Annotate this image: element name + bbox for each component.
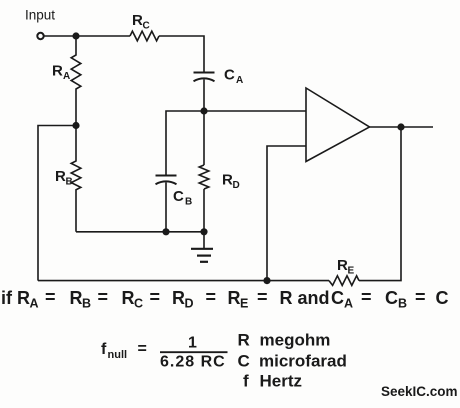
svg-text:Hertz: Hertz: [260, 372, 303, 391]
resistor RA: [71, 36, 81, 126]
wire RD to ground node: [203, 189, 205, 232]
wire op-amp inverting input: [267, 146, 306, 281]
svg-text:B: B: [398, 297, 407, 311]
wire RC to top-right corner: [159, 36, 204, 73]
resistor RB: [71, 126, 81, 232]
svg-text:R: R: [132, 12, 143, 29]
svg-text:6.28 RC: 6.28 RC: [160, 354, 226, 371]
svg-text:R: R: [52, 63, 63, 80]
wire RE to feedback node: [267, 280, 329, 282]
wire feedback node to left rail: [38, 280, 267, 282]
svg-text:1: 1: [188, 335, 197, 352]
svg-text:R: R: [238, 331, 250, 350]
svg-text:R: R: [122, 288, 135, 308]
node output junction: [397, 123, 404, 130]
svg-text:C: C: [238, 351, 250, 370]
resistor RE: [329, 276, 359, 286]
svg-text:and: and: [298, 288, 330, 308]
wire node B left to CB branch: [166, 111, 204, 176]
capacitor CB: [156, 176, 177, 185]
svg-text:C: C: [143, 21, 150, 32]
svg-text:C: C: [224, 67, 235, 84]
wire CB to bottom node: [165, 183, 167, 232]
capacitor CA: [194, 73, 215, 82]
svg-text:f: f: [101, 341, 107, 358]
node C junction: [72, 122, 79, 129]
svg-text:C: C: [385, 288, 398, 308]
wire op-amp output: [370, 126, 434, 128]
wire node B down to RD: [203, 111, 205, 165]
svg-text:R: R: [337, 257, 348, 274]
wire CA to node B: [203, 80, 205, 112]
svg-text:megohm: megohm: [260, 331, 331, 350]
svg-text:=: =: [206, 287, 217, 307]
svg-text:R: R: [222, 172, 233, 189]
svg-text:=: =: [150, 287, 161, 307]
svg-text:R: R: [172, 288, 185, 308]
input terminal: [37, 33, 43, 39]
svg-text:R: R: [17, 288, 30, 308]
svg-text:C: C: [134, 297, 143, 311]
node B junction: [200, 107, 207, 114]
wire RB bottom to ground node: [76, 231, 204, 233]
svg-text:R: R: [280, 288, 293, 308]
svg-text:C: C: [436, 288, 449, 308]
svg-text:A: A: [344, 297, 353, 311]
svg-text:if: if: [1, 288, 13, 308]
svg-text:C: C: [173, 188, 184, 205]
node ground junction: [200, 228, 207, 235]
wire input to node A: [44, 35, 76, 37]
node CB-bottom junction: [162, 228, 169, 235]
svg-text:microfarad: microfarad: [259, 351, 347, 370]
svg-text:Input: Input: [25, 8, 55, 23]
node A junction: [72, 32, 79, 39]
svg-text:D: D: [233, 180, 240, 191]
legend R megohm: [238, 331, 347, 391]
wire output down to RE: [359, 127, 401, 281]
svg-text:=: =: [361, 287, 372, 307]
wire node C to left rail: [38, 126, 76, 281]
svg-text:R: R: [228, 288, 241, 308]
svg-text:=: =: [138, 341, 147, 358]
formula f null: [101, 335, 228, 371]
wire node B to op-amp plus input: [204, 110, 306, 112]
condition equation text: [1, 287, 449, 311]
resistor RD: [199, 165, 209, 189]
svg-text:B: B: [66, 177, 73, 188]
svg-text:=: =: [45, 287, 56, 307]
ground: [191, 232, 213, 262]
svg-text:=: =: [415, 287, 426, 307]
svg-text:E: E: [348, 266, 355, 277]
svg-text:R: R: [55, 168, 66, 185]
svg-text:B: B: [185, 197, 192, 208]
svg-text:SeekIC.com: SeekIC.com: [381, 384, 458, 399]
svg-text:A: A: [236, 75, 243, 86]
svg-text:=: =: [98, 287, 109, 307]
svg-text:R: R: [70, 288, 83, 308]
op-amp U1: [306, 88, 370, 162]
wire node A to RC: [76, 35, 130, 37]
resistor RC: [130, 31, 159, 41]
svg-text:D: D: [185, 297, 194, 311]
svg-text:A: A: [63, 71, 70, 82]
node feedback junction: [263, 277, 270, 284]
svg-text:=: =: [257, 287, 268, 307]
svg-text:E: E: [240, 297, 248, 311]
svg-text:C: C: [331, 288, 344, 308]
svg-text:f: f: [243, 372, 249, 391]
svg-text:null: null: [108, 349, 128, 361]
svg-text:A: A: [30, 297, 39, 311]
svg-text:B: B: [82, 297, 91, 311]
